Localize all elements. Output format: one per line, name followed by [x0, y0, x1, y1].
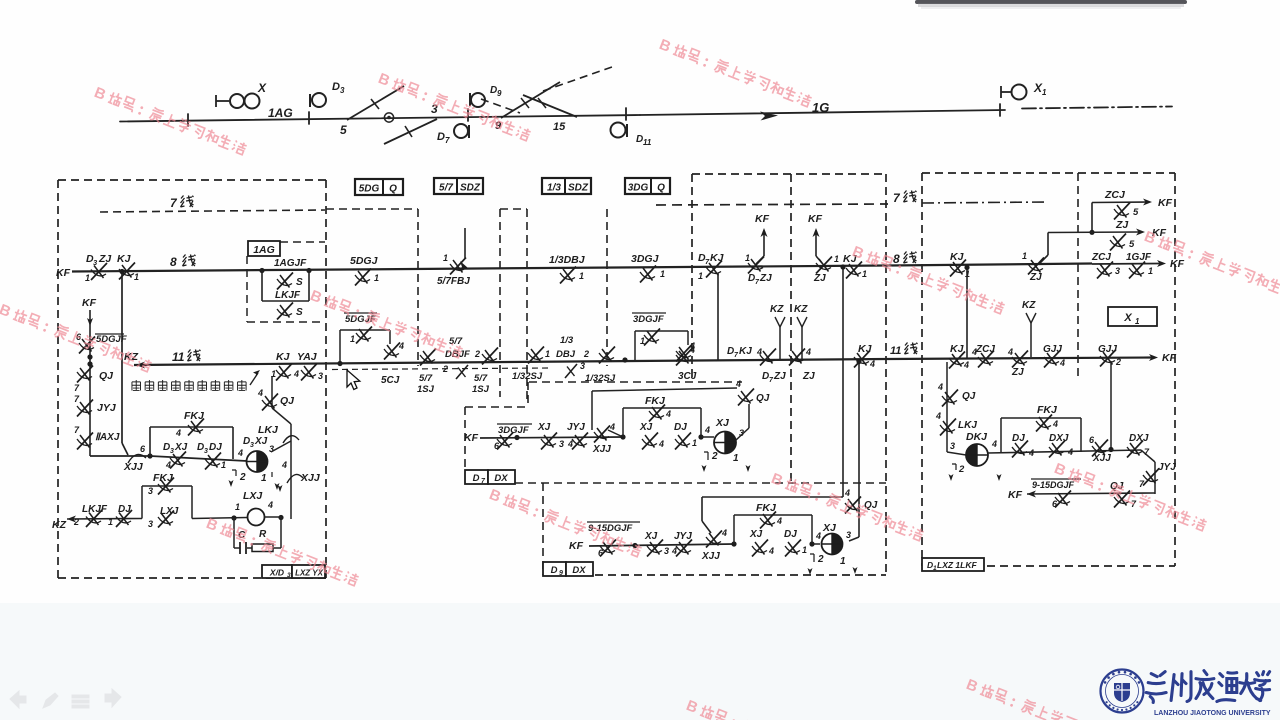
svg-text:5/7: 5/7	[419, 373, 433, 384]
svg-text:FKJ: FKJ	[1037, 404, 1058, 416]
contact 1/32SJ	[528, 347, 544, 364]
svg-text:4: 4	[1028, 448, 1034, 458]
svg-text:4: 4	[567, 439, 573, 449]
ZJ KF row	[1048, 231, 1139, 234]
svg-text:1: 1	[235, 502, 240, 512]
contact DJ	[675, 433, 691, 450]
contact QJ7	[77, 366, 93, 383]
5DG partition dashes	[326, 208, 418, 210]
svg-text:1: 1	[108, 517, 113, 527]
contact contact	[482, 348, 498, 365]
5DGJF bypass on 11线	[339, 330, 341, 364]
svg-text:1: 1	[221, 460, 226, 470]
svg-text:LKJ: LKJ	[958, 420, 977, 431]
svg-text:DXJ: DXJ	[1129, 433, 1149, 444]
contact D7ZJ	[789, 349, 805, 366]
relay coil D3XJ	[247, 451, 268, 472]
contact XJ	[647, 540, 663, 557]
X/D3 LXZ YX label box	[262, 565, 292, 578]
svg-text:LXZ 1LKF: LXZ 1LKF	[937, 560, 977, 570]
svg-text:1: 1	[733, 453, 739, 464]
label box 3DG Q	[625, 178, 670, 194]
dash-dot continuation right of X1 signal	[1022, 107, 1172, 109]
svg-text:Q: Q	[389, 184, 397, 195]
svg-text:DJ: DJ	[1012, 433, 1025, 444]
svg-text:QJ: QJ	[962, 391, 976, 402]
svg-text:ⅡAXJ: ⅡAXJ	[95, 432, 120, 443]
svg-text:1: 1	[374, 273, 379, 283]
svg-text:9: 9	[559, 570, 563, 577]
svg-text:2: 2	[583, 349, 589, 359]
svg-text:1: 1	[692, 438, 697, 448]
contact JYJ	[1143, 469, 1159, 486]
contact 3DGJF	[676, 345, 692, 362]
svg-text:KJ: KJ	[710, 252, 725, 264]
svg-text:1: 1	[745, 253, 750, 263]
svg-text:XJ: XJ	[644, 531, 658, 542]
svg-text:ZJ: ZJ	[98, 253, 112, 265]
svg-text:ZCJ: ZCJ	[1091, 252, 1111, 263]
svg-text:QJ: QJ	[280, 395, 295, 407]
contact D7KJ	[760, 349, 776, 366]
svg-text:3: 3	[250, 442, 254, 449]
svg-text:2: 2	[474, 349, 480, 359]
svg-text:1: 1	[350, 334, 355, 344]
contact 3DGJF	[644, 329, 660, 346]
svg-text:ZJ: ZJ	[1115, 219, 1129, 231]
contact ⅡAXJ	[77, 433, 93, 450]
contact 1/3DBJ	[560, 267, 576, 284]
svg-text:D: D	[332, 81, 340, 93]
faint toolbar icons bottom-left	[10, 689, 121, 708]
contact XJ	[642, 433, 658, 450]
contact KJ	[949, 352, 965, 369]
svg-text:1: 1	[840, 556, 846, 567]
faint dashed parallel under 11线	[332, 368, 548, 370]
bus 7线 dash-dot (middle/right)	[656, 204, 888, 205]
contact FKJ	[158, 478, 174, 495]
svg-text:X: X	[257, 81, 267, 95]
signal X (double circle on mast)	[215, 95, 217, 107]
svg-text:4: 4	[1059, 358, 1065, 368]
insulation joint ticks	[187, 114, 189, 126]
svg-text:4: 4	[815, 531, 821, 541]
contact LKJF	[277, 303, 293, 320]
contact contact	[748, 257, 764, 274]
svg-text:DX: DX	[572, 565, 586, 576]
svg-text:4: 4	[689, 345, 695, 355]
svg-text:QJ: QJ	[756, 393, 770, 404]
svg-text:1AGJF: 1AGJF	[274, 258, 307, 269]
svg-text:1: 1	[660, 269, 665, 279]
svg-text:GJJ: GJJ	[1043, 344, 1062, 355]
left relay block dashed outline	[58, 179, 326, 181]
svg-text:ZJ: ZJ	[802, 371, 815, 382]
contact FKJ	[760, 512, 776, 529]
svg-text:3DGJF: 3DGJF	[498, 425, 529, 436]
contact 1/32SJ	[599, 347, 615, 364]
svg-text:1/32SJ: 1/32SJ	[512, 371, 543, 382]
svg-text:4: 4	[756, 347, 762, 357]
contact XJ	[752, 540, 768, 557]
svg-text:3: 3	[1115, 266, 1120, 276]
D7 DX label box	[465, 470, 488, 484]
svg-text:LKJF: LKJF	[82, 504, 108, 515]
svg-text:5/7: 5/7	[449, 336, 463, 347]
svg-text:3: 3	[204, 448, 208, 455]
bus 7线 dashed (left block)	[100, 210, 325, 212]
svg-text:4: 4	[1052, 419, 1058, 429]
svg-text:KF: KF	[464, 432, 479, 444]
contact 4QJ	[942, 390, 958, 407]
svg-text:JYJ: JYJ	[567, 422, 585, 433]
svg-text:5DG: 5DG	[359, 184, 380, 195]
svg-text:D: D	[473, 473, 480, 484]
direction arrow on 1G	[760, 112, 778, 121]
svg-text:KF: KF	[569, 540, 584, 552]
svg-text:3CJ: 3CJ	[678, 371, 697, 382]
D9 DX label box	[543, 562, 566, 576]
svg-text:4: 4	[991, 439, 997, 449]
label box 5/7 SDZ	[434, 178, 483, 194]
svg-text:3: 3	[318, 371, 323, 381]
svg-text:KF: KF	[1170, 258, 1185, 270]
svg-text:1: 1	[85, 273, 90, 283]
svg-text:JYJ: JYJ	[674, 531, 692, 542]
contact XJ	[541, 433, 557, 450]
svg-text:QJ: QJ	[864, 500, 878, 511]
contact FKJ	[649, 405, 665, 422]
contact D3DJ	[205, 453, 221, 470]
svg-text:DJ: DJ	[784, 529, 797, 540]
svg-text:1: 1	[134, 272, 139, 282]
svg-text:1AG: 1AG	[253, 244, 275, 256]
svg-text:8: 8	[170, 255, 177, 269]
svg-text:1: 1	[834, 254, 839, 264]
turnout 5	[347, 86, 404, 120]
contact GJJ	[1044, 351, 1060, 368]
svg-text:XJJ: XJJ	[701, 551, 720, 562]
bottom light band	[0, 603, 1280, 720]
svg-text:1: 1	[640, 336, 645, 346]
svg-text:4: 4	[237, 448, 243, 458]
contact 3DGJF	[497, 433, 513, 450]
svg-text:LKJF: LKJF	[275, 290, 301, 301]
svg-text:3: 3	[287, 572, 291, 579]
circled dot	[384, 113, 393, 122]
vertical D7KJ down to 11线	[717, 273, 719, 360]
svg-text:1GJF: 1GJF	[1126, 252, 1152, 263]
svg-text:4: 4	[1067, 447, 1073, 457]
svg-text:DX: DX	[494, 473, 508, 484]
mouse cursor	[347, 370, 360, 390]
D1LXZ 1LKF label box	[922, 558, 984, 571]
svg-text:D: D	[437, 131, 445, 143]
label box 5DG Q	[355, 179, 403, 195]
3DGJF bypass on 11线	[634, 331, 636, 360]
signal X1	[1000, 86, 1002, 98]
FKJ bypass box (right)	[1000, 418, 1002, 452]
svg-text:KF: KF	[82, 297, 97, 309]
svg-text:4: 4	[963, 360, 969, 370]
contact ZCJ	[978, 351, 994, 368]
svg-text:KF: KF	[1158, 197, 1173, 209]
svg-text:4: 4	[869, 359, 875, 369]
svg-text:4: 4	[805, 347, 811, 357]
svg-text:9-15DGJF: 9-15DGJF	[1032, 480, 1075, 490]
contact 4QJ	[845, 497, 861, 514]
svg-text:XJJ: XJJ	[123, 461, 144, 473]
1AG dashed sub-box	[280, 241, 325, 243]
relay coil DKJ	[966, 444, 988, 466]
svg-text:R: R	[259, 529, 267, 540]
ZCJ KF row	[1092, 201, 1146, 204]
svg-text:1SJ: 1SJ	[472, 384, 490, 395]
svg-text:ZJ: ZJ	[1029, 272, 1042, 283]
svg-text:1/3: 1/3	[547, 183, 561, 194]
contact contact	[816, 257, 832, 274]
track layout main line 1AG/1G	[120, 104, 1172, 126]
contact DJ	[785, 540, 801, 557]
svg-text:XJJ: XJJ	[1092, 453, 1111, 464]
svg-text:3: 3	[580, 361, 585, 371]
svg-text:2: 2	[1115, 357, 1121, 367]
svg-text:KF: KF	[808, 213, 823, 225]
svg-text:4: 4	[776, 516, 782, 526]
svg-text:GJJ: GJJ	[1098, 344, 1117, 355]
bus 8线 solid full width	[72, 266, 886, 272]
svg-text:1: 1	[1042, 88, 1047, 97]
svg-text:8: 8	[893, 252, 900, 266]
svg-text:3: 3	[846, 530, 851, 540]
svg-text:XJ: XJ	[537, 422, 551, 433]
svg-text:X/D: X/D	[269, 568, 284, 578]
contact contact	[1028, 258, 1044, 275]
contact 4QJ	[738, 389, 754, 406]
contact 3DGJ	[640, 266, 656, 283]
svg-text:LXJ: LXJ	[243, 490, 263, 502]
svg-text:4: 4	[671, 546, 677, 556]
contact KJ	[119, 263, 135, 280]
svg-text:3: 3	[950, 441, 955, 451]
svg-text:1: 1	[862, 269, 867, 279]
svg-text:1: 1	[1022, 251, 1027, 261]
svg-text:3: 3	[148, 486, 153, 496]
svg-text:1/3DBJ: 1/3DBJ	[549, 254, 586, 266]
svg-text:DBJ: DBJ	[556, 349, 576, 360]
contact 1/3DBJ2	[565, 364, 577, 378]
QJ branch above motor	[592, 388, 737, 391]
wire down through QJ/LKJ to motor and XJJ to LXJ	[271, 376, 273, 408]
svg-text:3DG: 3DG	[628, 183, 649, 194]
contact ZJ	[1012, 351, 1028, 368]
svg-text:KF: KF	[1162, 352, 1177, 364]
contact 5DGJ	[355, 269, 371, 286]
svg-text:KZ: KZ	[770, 304, 784, 315]
contact QJ4	[262, 394, 278, 411]
svg-text:4: 4	[257, 388, 263, 398]
svg-text:4: 4	[704, 425, 710, 435]
svg-text:ZJ: ZJ	[759, 273, 772, 284]
svg-text:KJ: KJ	[858, 343, 873, 355]
svg-text:2: 2	[711, 451, 718, 462]
contact 5DGJF	[356, 327, 372, 344]
contact JYJ	[77, 400, 93, 417]
svg-text:3DGJ: 3DGJ	[631, 253, 660, 265]
svg-text:3: 3	[559, 439, 564, 449]
svg-text:QJ: QJ	[99, 370, 114, 382]
contact DXJ	[1049, 441, 1065, 458]
1AG label box	[248, 241, 280, 256]
contact KJ	[846, 262, 862, 279]
contact 9-15DGJF	[1055, 491, 1071, 508]
svg-text:4: 4	[721, 528, 727, 538]
X1 label box	[1108, 307, 1157, 326]
svg-text:KF: KF	[1008, 489, 1023, 501]
svg-text:XJ: XJ	[254, 436, 268, 447]
svg-text:1: 1	[698, 271, 703, 281]
svg-text:KZ: KZ	[1022, 300, 1036, 311]
svg-text:ZJ: ZJ	[773, 371, 786, 382]
contact ZCJ	[1097, 262, 1113, 279]
svg-text:SDZ: SDZ	[568, 183, 589, 194]
svg-text:3: 3	[664, 546, 669, 556]
svg-text:1/32SJ: 1/32SJ	[585, 373, 616, 384]
svg-text:1: 1	[261, 473, 267, 484]
svg-text:X: X	[1123, 312, 1132, 324]
svg-text:KZ: KZ	[52, 519, 67, 531]
svg-text:5: 5	[340, 123, 347, 137]
svg-text:5DGJF: 5DGJF	[96, 334, 127, 345]
svg-text:9: 9	[497, 89, 502, 98]
svg-text:4: 4	[971, 347, 977, 357]
relay coil XJ	[714, 432, 736, 454]
middle relay block dashed outline	[692, 173, 886, 175]
svg-text:S: S	[296, 307, 303, 318]
svg-text:2: 2	[958, 464, 965, 475]
contact D3DJ	[170, 452, 186, 469]
svg-text:DJ: DJ	[209, 442, 222, 453]
svg-text:ZJ: ZJ	[1011, 367, 1024, 378]
svg-text:YAJ: YAJ	[297, 351, 318, 363]
contact JYJ	[676, 540, 692, 557]
contact ZCJ	[1114, 203, 1130, 220]
right relay block dashed outline	[922, 172, 1175, 174]
contact 5DGJF	[384, 343, 400, 360]
svg-text:KF: KF	[56, 267, 71, 279]
svg-text:2: 2	[239, 472, 246, 483]
contact contact	[450, 258, 466, 275]
contact XJJ	[594, 426, 610, 443]
svg-text:5CJ: 5CJ	[381, 375, 400, 386]
svg-text:KF: KF	[755, 213, 770, 225]
svg-text:JYJ: JYJ	[97, 402, 117, 414]
svg-text:5: 5	[1133, 207, 1139, 218]
svg-text:1G: 1G	[812, 100, 829, 115]
contact JYJ	[572, 433, 588, 450]
vertical KJ 11线 down through QJ to D9 motor	[858, 362, 860, 537]
svg-text:1SJ: 1SJ	[417, 384, 435, 395]
contact contact	[79, 337, 95, 354]
svg-text:4: 4	[768, 546, 774, 556]
svg-text:Q: Q	[657, 183, 665, 194]
svg-text:SDZ: SDZ	[460, 183, 481, 194]
contact contact	[676, 349, 692, 366]
watermarks B站号：爱上学习和生活	[92, 84, 248, 159]
contact D3ZJ	[91, 263, 107, 280]
FKJ bypass box (left)	[149, 427, 151, 456]
svg-text:4: 4	[658, 439, 664, 449]
svg-text:KJ: KJ	[276, 351, 291, 363]
contact contact	[1092, 440, 1108, 457]
contact FKJ	[1036, 415, 1052, 432]
svg-text:5DGJ: 5DGJ	[350, 255, 379, 267]
svg-text:11: 11	[643, 138, 652, 147]
D9 top link wire	[702, 496, 843, 498]
contact GJJ	[1100, 350, 1116, 367]
svg-text:KJ: KJ	[950, 251, 965, 263]
svg-text:4: 4	[665, 409, 671, 419]
contact QJ	[1114, 491, 1130, 508]
contact FKJ	[188, 419, 204, 436]
svg-text:1: 1	[545, 349, 550, 359]
contact D7KJ	[706, 261, 722, 278]
signal D11	[611, 123, 626, 138]
svg-text:5/7FBJ: 5/7FBJ	[437, 276, 470, 287]
svg-text:2: 2	[442, 364, 448, 374]
svg-text:XJ: XJ	[715, 417, 730, 429]
svg-text:ZCJ: ZCJ	[1104, 189, 1126, 201]
svg-text:XJJ: XJJ	[592, 444, 611, 455]
bottom bus of left block	[90, 455, 150, 457]
svg-text:4: 4	[165, 460, 171, 470]
1/3 partition dash	[606, 209, 608, 366]
contact 5/7DBJF2	[456, 365, 468, 379]
svg-text:1: 1	[802, 545, 807, 555]
svg-text:DKJ: DKJ	[966, 431, 988, 443]
svg-text:LXZ YX: LXZ YX	[295, 569, 324, 578]
svg-text:KJ: KJ	[739, 346, 752, 357]
svg-text:XJ: XJ	[822, 522, 837, 534]
svg-text:3DGJF: 3DGJF	[633, 314, 664, 325]
contact XJJ	[706, 531, 722, 548]
contact 1GJF	[1129, 262, 1145, 279]
contact LXJ	[158, 511, 174, 528]
svg-text:5/7: 5/7	[474, 373, 488, 384]
long vertical from KJ contact down to bottom bus	[121, 272, 123, 443]
svg-text:11: 11	[890, 345, 901, 357]
bend down to JYJ and KF row	[1141, 450, 1155, 462]
relay coil XJ	[822, 534, 843, 555]
svg-text:4: 4	[398, 341, 404, 351]
svg-text:DJ: DJ	[674, 422, 687, 433]
svg-text:KJ: KJ	[117, 253, 132, 265]
contact KJ	[854, 351, 870, 368]
contact S	[277, 273, 293, 290]
contact KJYAJ	[276, 364, 292, 381]
svg-text:4: 4	[935, 411, 941, 421]
Lanzhou Jiaotong University emblem	[1101, 670, 1144, 713]
svg-text:XJ: XJ	[749, 529, 763, 540]
svg-text:7: 7	[445, 136, 450, 145]
label box 1/3 SDZ	[542, 178, 591, 194]
FKJ bypass box (middle)	[622, 408, 624, 437]
FKJ bypass box (D9)	[733, 515, 735, 544]
contact 9-15DGJF	[600, 540, 616, 557]
note 接至引导信号继电器 with arrow	[132, 380, 141, 390]
svg-text:ZJ: ZJ	[813, 273, 826, 284]
svg-text:XJ: XJ	[639, 422, 653, 433]
